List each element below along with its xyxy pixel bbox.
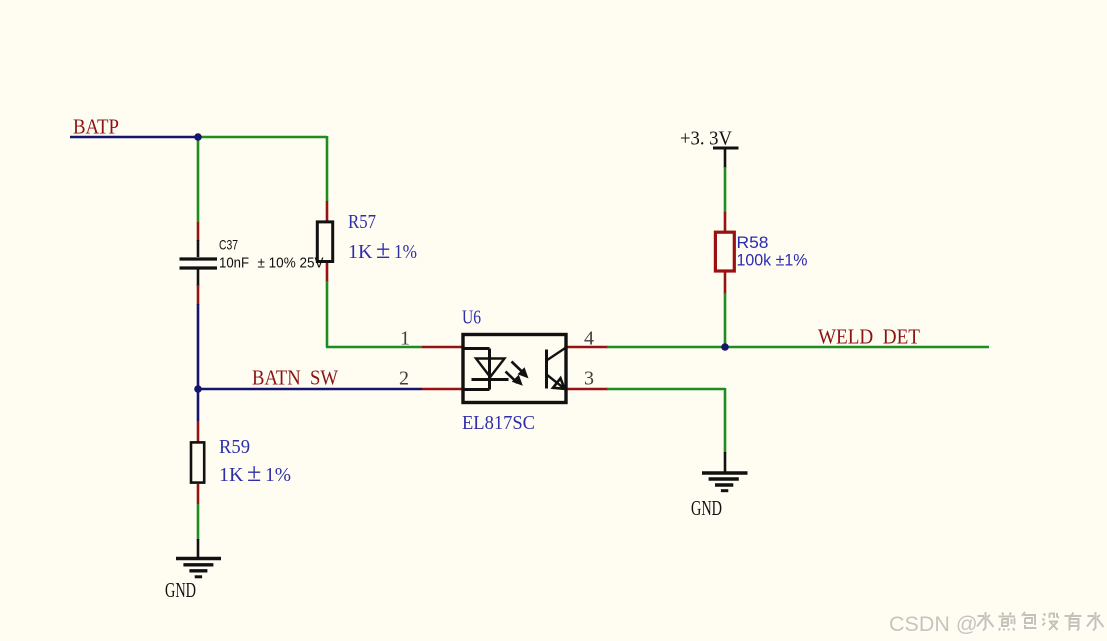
svg-text:1%: 1% [394,241,417,263]
svg-text:WELD DET: WELD DET [818,325,920,349]
svg-text:GND: GND [165,578,196,602]
svg-text:BATP: BATP [73,115,119,139]
svg-text:C37: C37 [219,237,238,253]
svg-text:1: 1 [400,328,410,350]
svg-text:U6: U6 [462,307,481,329]
svg-text:R57: R57 [348,211,376,233]
svg-text:EL817SC: EL817SC [462,412,535,434]
svg-text:1%: 1% [265,464,291,486]
svg-text:2: 2 [399,368,409,390]
svg-text:100k ±1%: 100k ±1% [737,251,808,270]
svg-text:+3. 3V: +3. 3V [680,128,732,150]
svg-text:±: ± [247,458,261,487]
svg-text:CSDN @: CSDN @ [889,612,978,636]
svg-text:BATN SW: BATN SW [252,366,339,390]
svg-text:R59: R59 [219,436,250,458]
svg-text:GND: GND [691,496,722,520]
svg-text:4: 4 [584,328,594,350]
svg-text:1K: 1K [219,464,244,486]
svg-text:1K: 1K [348,241,373,263]
svg-text:R58: R58 [737,233,769,252]
svg-text:10nF: 10nF [219,255,249,272]
svg-text:±: ± [376,235,390,264]
svg-text:3: 3 [584,368,594,390]
svg-text:± 10% 25V: ± 10% 25V [258,255,324,272]
